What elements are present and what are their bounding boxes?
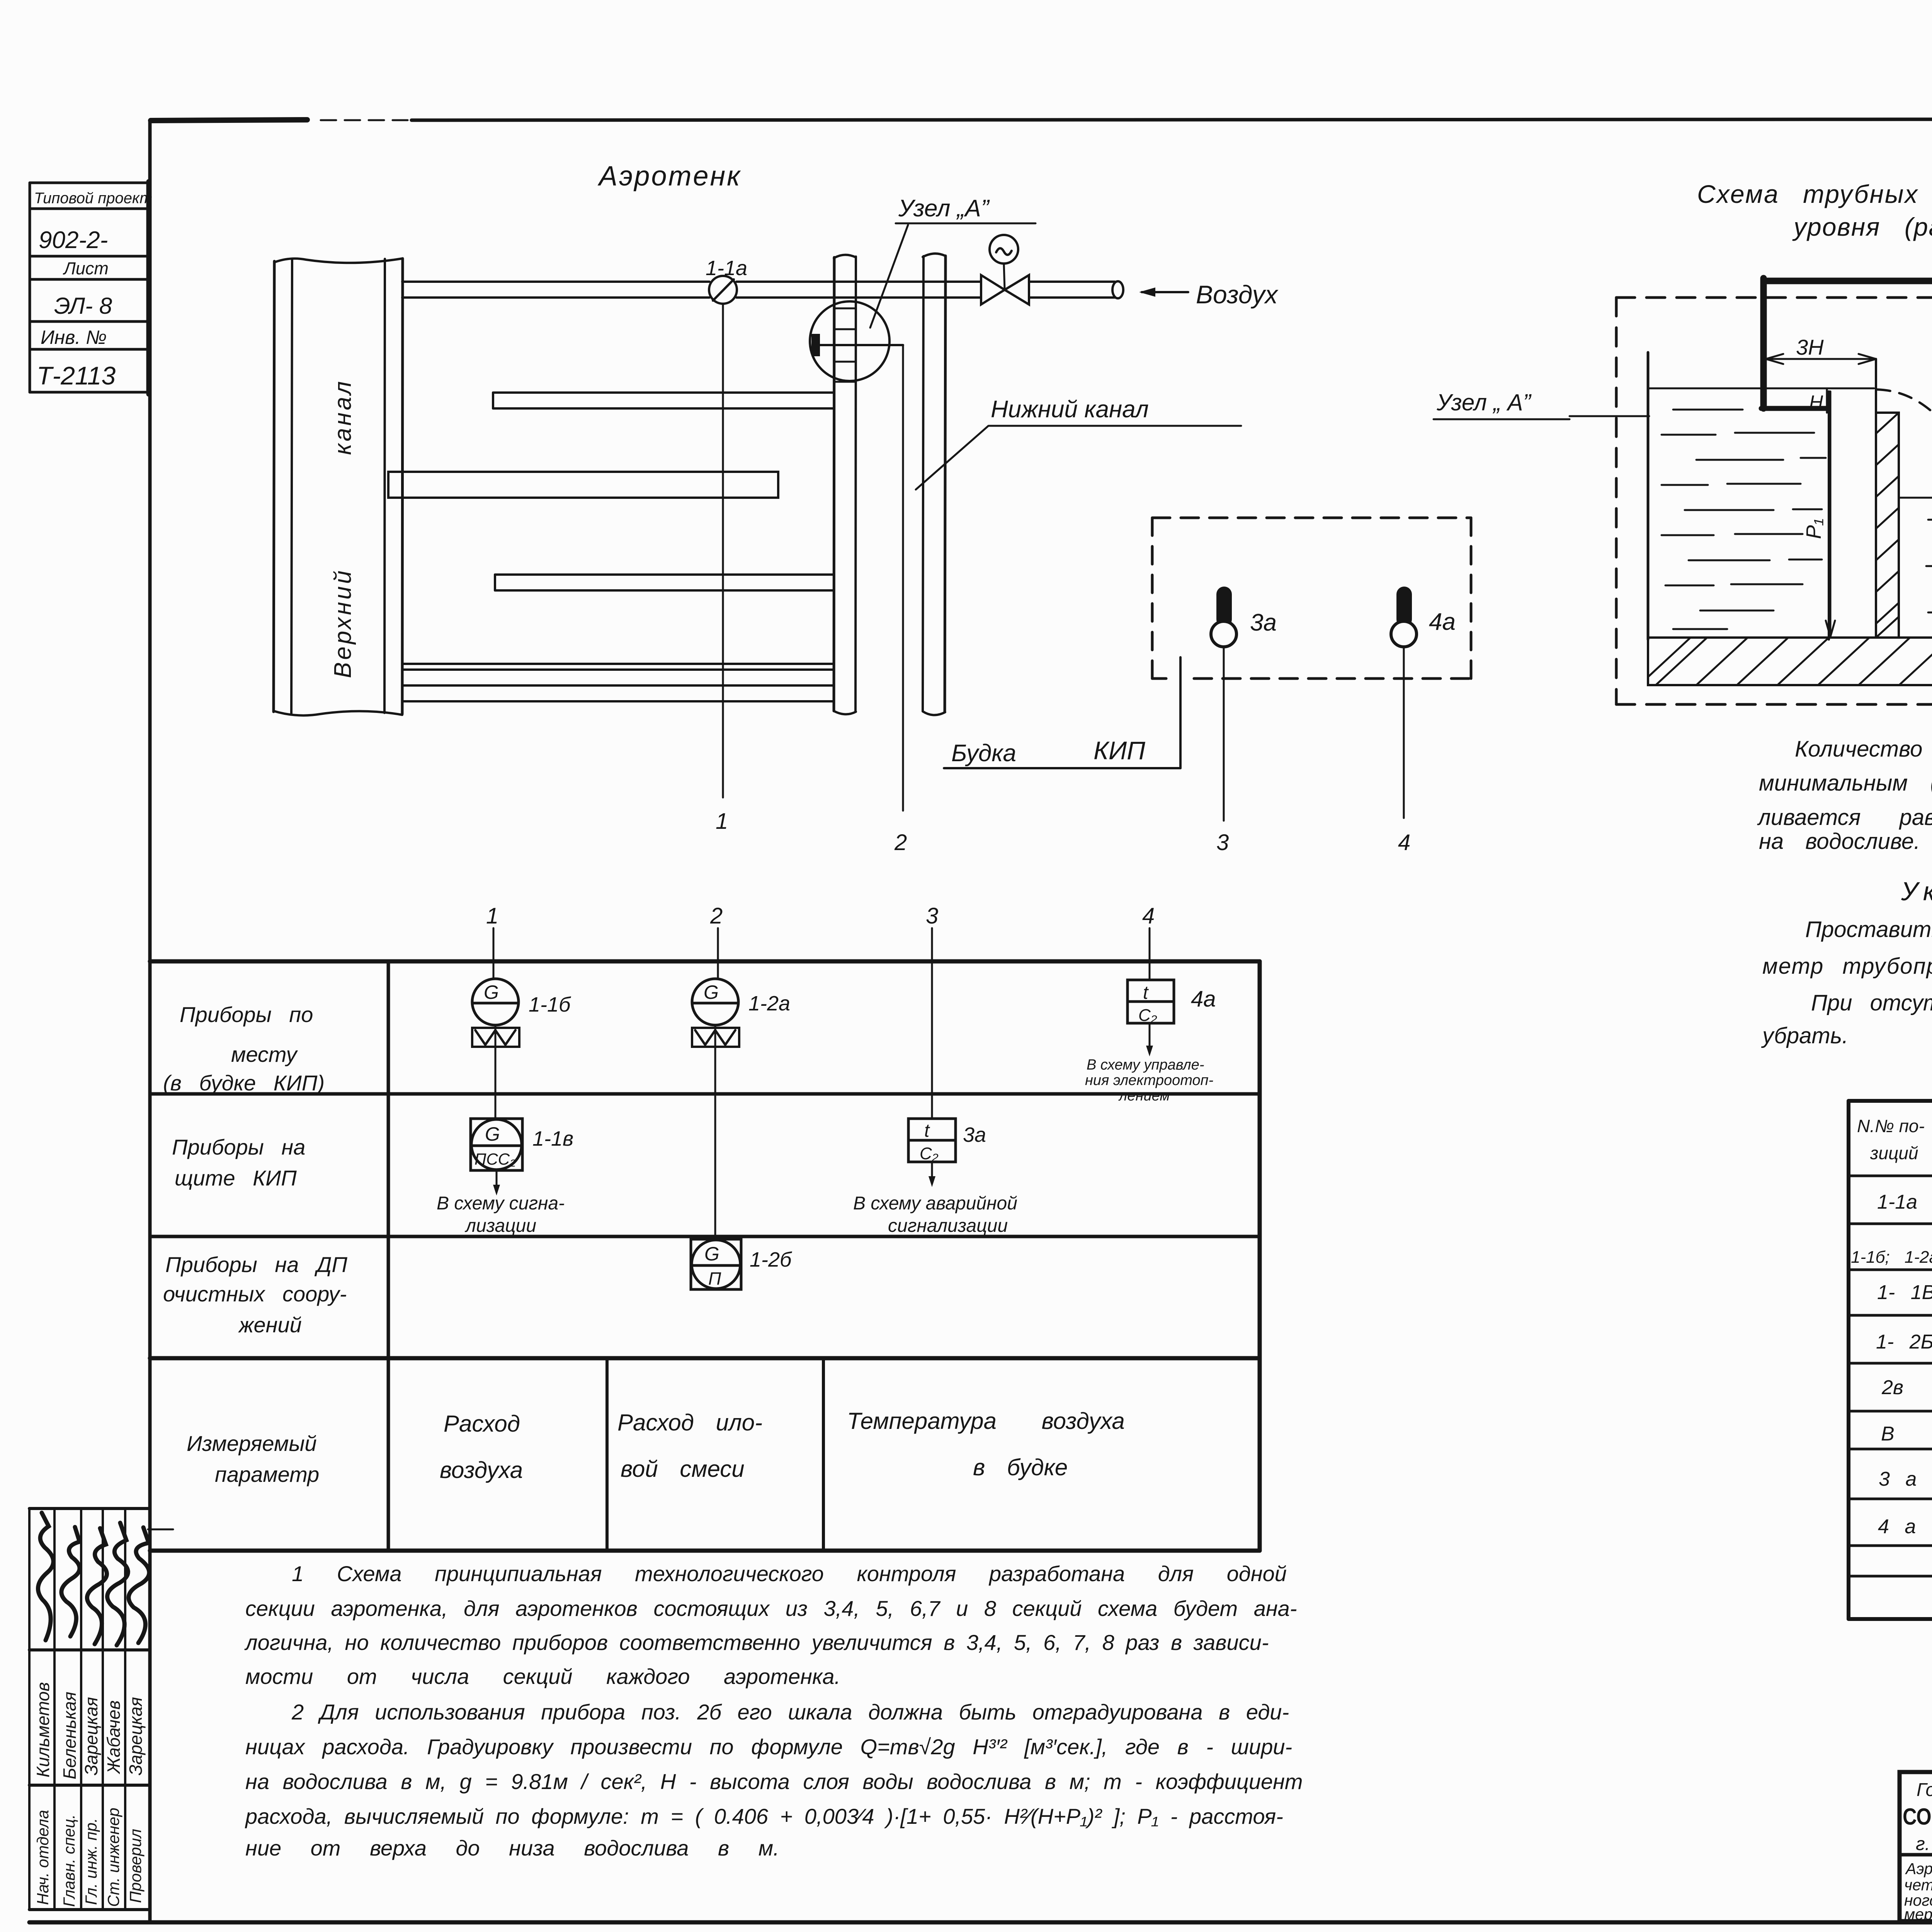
svg-text:логична, но количество: логична, но количество приборов соответс… [244, 1630, 1269, 1655]
svg-text:Воздух: Воздух [1196, 280, 1279, 309]
svg-text:1- 2Б: 1- 2Б [1876, 1331, 1932, 1353]
svg-text:ливается равным максимальн: ливается равным максимальному перепаду и… [1757, 805, 1932, 830]
svg-text:3а: 3а [1250, 609, 1277, 636]
svg-text:на водослива в м, g: на водослива в м, g = 9.81м / сек², Н - … [245, 1769, 1303, 1794]
svg-text:3: 3 [926, 903, 938, 929]
svg-text:G: G [704, 1243, 719, 1265]
svg-text:4: 4 [1398, 830, 1410, 855]
svg-text:1-1а: 1-1а [1877, 1191, 1917, 1213]
svg-text:П: П [708, 1269, 721, 1289]
svg-text:Температура воздуха: Температура воздуха [847, 1408, 1125, 1434]
svg-text:4а: 4а [1191, 986, 1216, 1012]
svg-text:Измеряемый: Измеряемый [187, 1431, 317, 1456]
svg-text:Приборы на: Приборы на [172, 1135, 305, 1159]
svg-text:Т-2113: Т-2113 [37, 361, 116, 390]
svg-text:1-2а: 1-2а [748, 992, 790, 1015]
svg-text:Н: Н [1809, 391, 1823, 413]
svg-text:1: 1 [716, 809, 728, 834]
svg-text:убрать.: убрать. [1761, 1023, 1848, 1048]
svg-text:Гл. инж. пр.: Гл. инж. пр. [82, 1818, 100, 1905]
svg-text:ЭЛ- 8: ЭЛ- 8 [54, 293, 112, 319]
svg-text:Количество продуваемого: Количество продуваемого воздуха устанавл… [1795, 736, 1932, 762]
svg-text:Главн. спец.: Главн. спец. [60, 1814, 78, 1907]
svg-text:КИП: КИП [1094, 736, 1145, 765]
svg-text:ПСС₂: ПСС₂ [474, 1150, 516, 1168]
svg-text:очистных соору-: очистных соору- [163, 1282, 347, 1306]
svg-text:1 Схема принципиальная т: 1 Схема принципиальная технологического … [292, 1561, 1287, 1586]
svg-text:Проверил: Проверил [126, 1829, 145, 1903]
svg-text:Р₁: Р₁ [1802, 519, 1825, 539]
svg-text:Узел „ А”: Узел „ А” [1436, 389, 1532, 415]
svg-text:G: G [704, 981, 719, 1003]
svg-text:Аэротенк: Аэротенк [597, 161, 742, 192]
svg-text:С₂: С₂ [920, 1144, 939, 1163]
svg-text:Беленькая: Беленькая [60, 1692, 80, 1779]
svg-text:Жабачев: Жабачев [104, 1700, 124, 1774]
svg-text:В схему аварийной: В схему аварийной [853, 1193, 1017, 1214]
svg-text:902-2-: 902-2- [39, 227, 108, 253]
svg-text:Ст. инженер: Ст. инженер [104, 1808, 122, 1907]
svg-text:В схему управле-: В схему управле- [1087, 1057, 1204, 1073]
svg-text:Типовой проект: Типовой проект [34, 190, 153, 207]
svg-text:Расход ило-: Расход ило- [617, 1410, 762, 1435]
svg-text:Приборы по: Приборы по [180, 1002, 313, 1027]
svg-text:ние от верха до низа: ние от верха до низа водослива в м. [245, 1836, 779, 1860]
svg-text:Схема трубных соединений п: Схема трубных соединений при измерении [1697, 180, 1932, 208]
svg-text:При отсутствии электроотопл: При отсутствии электроотопления в будке … [1811, 990, 1932, 1015]
svg-text:Расход: Расход [444, 1411, 520, 1437]
svg-text:3 а: 3 а [1879, 1468, 1917, 1490]
svg-text:2в: 2в [1881, 1376, 1903, 1399]
svg-text:4 а: 4 а [1878, 1515, 1916, 1538]
svg-text:3: 3 [1216, 830, 1229, 855]
svg-text:(в будке КИП): (в будке КИП) [163, 1071, 325, 1095]
svg-text:1-1в: 1-1в [532, 1127, 573, 1150]
svg-text:ния электроотоп-: ния электроотоп- [1085, 1072, 1213, 1088]
svg-text:4а: 4а [1429, 609, 1456, 635]
svg-text:Зарецкая: Зарецкая [126, 1697, 146, 1776]
svg-text:Инв. №: Инв. № [41, 327, 107, 348]
svg-text:зиций: зиций [1870, 1143, 1918, 1163]
svg-text:уровня (расхода) жидкости: уровня (расхода) жидкости [1792, 213, 1932, 241]
svg-text:Указания по привязке: Указания по привязке [1901, 877, 1932, 906]
svg-text:минимальным ( от 0,5 до 2л: минимальным ( от 0,5 до 2л/мин ), давлен… [1759, 770, 1932, 796]
svg-text:N.№ по-: N.№ по- [1857, 1116, 1925, 1136]
svg-text:расхода, вычисляемый по: расхода, вычисляемый по формуле: m = ( 0… [245, 1804, 1283, 1828]
svg-text:Аэротенки - смесители: Аэротенки - смесители [1905, 1860, 1932, 1878]
svg-text:мером коридора 9×5,2× 150 м.: мером коридора 9×5,2× 150 м. [1904, 1905, 1932, 1923]
svg-text:2: 2 [894, 830, 907, 855]
svg-text:Узел „А”: Узел „А” [898, 195, 990, 222]
svg-text:1-1б; 1-2а: 1-1б; 1-2а [1851, 1248, 1932, 1267]
svg-text:воздуха: воздуха [440, 1457, 523, 1483]
svg-text:2: 2 [710, 903, 723, 929]
svg-text:параметр: параметр [215, 1462, 319, 1486]
svg-text:В схему сигна-: В схему сигна- [437, 1193, 565, 1214]
svg-text:3Н: 3Н [1796, 335, 1824, 359]
svg-text:лением: лением [1118, 1088, 1170, 1104]
svg-text:1-2б: 1-2б [750, 1248, 792, 1271]
svg-text:Проставить в графе „тип": Проставить в графе „тип" в [1805, 917, 1932, 942]
svg-text:жений: жений [238, 1313, 302, 1337]
svg-text:1-1а: 1-1а [706, 257, 747, 280]
svg-text:вой смеси: вой смеси [621, 1456, 745, 1482]
svg-text:Зарецкая: Зарецкая [81, 1697, 101, 1776]
svg-text:Госстрой: Госстрой [1917, 1780, 1932, 1800]
svg-text:Лист: Лист [63, 259, 109, 278]
svg-text:Верхний канал: Верхний канал [330, 379, 356, 678]
svg-text:на водосливе.: на водосливе. [1759, 829, 1920, 854]
svg-text:мости от числа секций: мости от числа секций каждого аэротенка. [245, 1664, 840, 1689]
svg-text:t: t [1143, 983, 1149, 1003]
svg-text:метр трубопровода, где ус: метр трубопровода, где устанавливается д… [1762, 954, 1932, 979]
svg-text:Нач. отдела: Нач. отдела [34, 1810, 52, 1905]
svg-text:G: G [484, 981, 499, 1003]
svg-text:в будке: в будке [973, 1454, 1068, 1480]
svg-text:щите КИП: щите КИП [175, 1166, 297, 1190]
svg-text:G: G [485, 1123, 500, 1145]
svg-text:t: t [924, 1121, 930, 1141]
svg-text:Будка: Будка [951, 740, 1016, 767]
svg-text:г. Москва: г. Москва [1916, 1834, 1932, 1854]
svg-text:секции аэротенка, для аэро: секции аэротенка, для аэротенков состоящ… [245, 1596, 1297, 1621]
svg-text:4: 4 [1142, 903, 1155, 929]
svg-text:лизации: лизации [464, 1216, 536, 1236]
svg-text:1-1б: 1-1б [529, 993, 571, 1016]
svg-text:С₂: С₂ [1138, 1006, 1157, 1025]
svg-text:2 Для использования прибо: 2 Для использования прибора поз. 2б его … [291, 1700, 1289, 1724]
svg-text:сигнализации: сигнализации [888, 1216, 1008, 1236]
svg-text:СОЮЗВОДОКАНАЛПРОЕКТ: СОЮЗВОДОКАНАЛПРОЕКТ [1903, 1804, 1932, 1830]
svg-text:1: 1 [486, 903, 498, 929]
svg-text:ницах расхода. Градуировку: ницах расхода. Градуировку произвести по… [245, 1735, 1292, 1759]
svg-text:Приборы на ДП: Приборы на ДП [165, 1252, 347, 1277]
svg-text:месту: месту [231, 1042, 298, 1066]
svg-text:В: В [1881, 1423, 1895, 1445]
svg-text:1- 1В: 1- 1В [1877, 1281, 1932, 1304]
svg-text:3а: 3а [963, 1123, 986, 1146]
svg-text:Нижний канал: Нижний канал [991, 396, 1149, 423]
svg-text:Кильметов: Кильметов [33, 1682, 53, 1777]
